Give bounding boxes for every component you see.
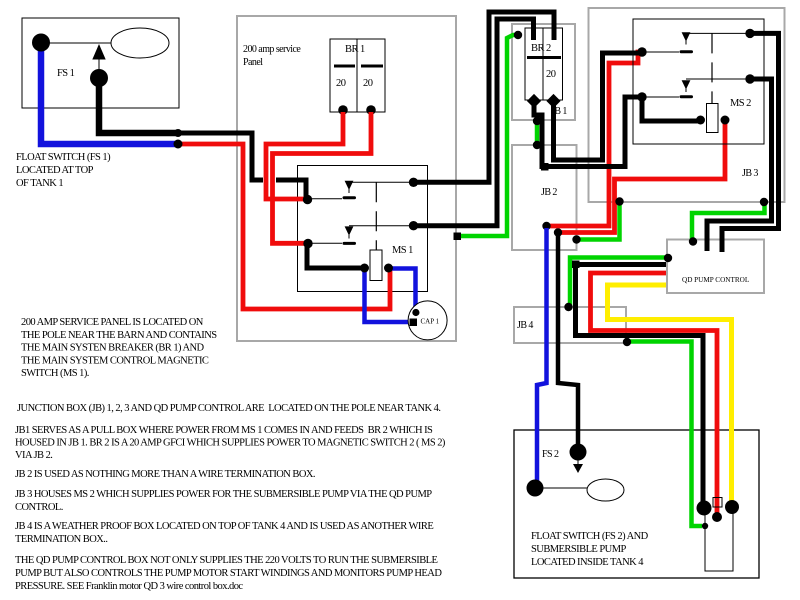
ground dot near BR2 <box>514 31 522 39</box>
wire black MS1 upper output to BR2 right stub <box>414 12 555 182</box>
svg-text:JB 3 HOUSES MS 2 WHICH SUPPLIE: JB 3 HOUSES MS 2 WHICH SUPPLIES POWER FO… <box>15 489 432 500</box>
paragraph P5 <box>15 489 432 513</box>
svg-text:200 AMP SERVICE PANEL IS LOCAT: 200 AMP SERVICE PANEL IS LOCATED ON <box>21 317 204 328</box>
svg-text:BR 2: BR 2 <box>531 43 551 54</box>
tank caption <box>531 531 649 568</box>
svg-text:HOUSED IN JB 1. BR 2 IS A 20 A: HOUSED IN JB 1. BR 2 IS A 20 AMP GFCI WH… <box>15 438 446 449</box>
svg-text:20: 20 <box>363 78 373 89</box>
svg-text:JB 2: JB 2 <box>541 187 557 198</box>
JB1 label <box>551 106 567 117</box>
wire black segment after red crossing into MS1 <box>276 180 306 197</box>
junction box JB2 (gray) <box>512 145 577 250</box>
breaker BR1 label <box>345 44 365 55</box>
svg-text:FS 1: FS 1 <box>57 68 75 79</box>
paragraph P7 <box>15 555 442 592</box>
svg-text:SWITCH (MS 1).: SWITCH (MS 1). <box>21 368 89 379</box>
submersible pump terminals <box>697 498 740 572</box>
MS2 output dots <box>745 29 754 38</box>
svg-text:THE QD PUMP CONTROL BOX NOT ON: THE QD PUMP CONTROL BOX NOT ONLY SUPPLIE… <box>15 555 438 566</box>
MS2 linkage dashed line <box>711 33 713 103</box>
ground dot on QD top edge <box>689 237 697 245</box>
wire blue coil left to CAP1 lower <box>365 269 411 322</box>
svg-text:QD PUMP CONTROL: QD PUMP CONTROL <box>682 276 749 284</box>
JB4 label <box>517 320 533 331</box>
svg-text:JB 3: JB 3 <box>742 168 758 179</box>
green jumper in JB1 <box>535 121 540 145</box>
paragraph P6 <box>15 521 433 545</box>
wire black BR2 left to MS2 lower input <box>534 97 640 167</box>
svg-text:BR 1: BR 1 <box>345 44 365 55</box>
svg-text:FLOAT SWITCH (FS 2) AND: FLOAT SWITCH (FS 2) AND <box>531 531 649 542</box>
QD control label <box>682 276 749 284</box>
QD pump control box (gray) <box>667 240 764 294</box>
wire red BR1 left to MS1 upper input <box>266 112 343 199</box>
wire black MS2 lower output to QD control <box>707 79 772 251</box>
wire green panel ground to JB1 <box>459 35 518 236</box>
svg-text:FS 2: FS 2 <box>542 449 559 460</box>
MS1 coil terminal dots <box>360 264 369 273</box>
MS2 coil terminal dots <box>696 116 705 125</box>
wire green JB3 ground to QD control <box>692 204 765 239</box>
ground dot on panel edge <box>454 233 462 241</box>
MS1 linkage dashed line <box>375 182 377 250</box>
wire green QD to JB4 <box>570 258 666 306</box>
junction dot A red-blue <box>542 222 550 230</box>
junction box JB4 (gray) <box>514 307 626 343</box>
junction box JB1 (gray) <box>512 24 575 120</box>
FS1 label <box>57 68 75 79</box>
breaker BR2 box <box>525 28 563 100</box>
FS1 caption <box>16 152 111 189</box>
junction square dot black QD wire <box>572 261 580 269</box>
junction dots FS1 wires <box>174 129 182 137</box>
svg-text:MS 1: MS 1 <box>392 245 413 256</box>
MS1 input dots <box>303 195 312 204</box>
junction dot B red-black <box>554 228 562 236</box>
ground dot JB4 corner <box>623 338 631 346</box>
svg-text:200 amp service: 200 amp service <box>243 44 301 55</box>
ground dot on JB3 bottom edge left <box>615 197 623 205</box>
svg-text:JB 4 IS A WEATHER PROOF BOX LO: JB 4 IS A WEATHER PROOF BOX LOCATED ON T… <box>15 521 433 532</box>
wire green JB3 to JB2 termination <box>579 203 620 240</box>
BR2 terminal diamond left <box>527 94 541 108</box>
panel label <box>243 44 301 68</box>
svg-text:THE MAIN SYSTEM CONTROL MAGNET: THE MAIN SYSTEM CONTROL MAGNETIC <box>21 356 209 367</box>
svg-text:20: 20 <box>336 78 346 89</box>
termination dot on JB2 right edge <box>572 235 580 243</box>
wire black FS1 switch to MS1 upper input <box>99 82 178 133</box>
ground dot on JB3 bottom edge right <box>760 198 768 206</box>
paragraph P3 <box>15 425 446 461</box>
wire green JB4 to pump ground <box>627 342 702 527</box>
svg-text:20: 20 <box>546 69 556 80</box>
svg-text:FLOAT SWITCH (FS 1): FLOAT SWITCH (FS 1) <box>16 152 111 163</box>
wire red junction to MS1 coil (via panel bottom) <box>178 144 390 309</box>
200 amp service panel box (gray) <box>237 16 456 341</box>
wire black QD to pump <box>576 265 704 506</box>
MS2 upper contact <box>642 32 750 53</box>
svg-text:PUMP BUT ALSO CONTROLS THE PUM: PUMP BUT ALSO CONTROLS THE PUMP MOTOR ST… <box>15 568 442 579</box>
paragraph P1 <box>21 317 217 379</box>
svg-text:THE MAIN SYSTEN BREAKER (BR 1): THE MAIN SYSTEN BREAKER (BR 1) AND <box>21 343 205 354</box>
wire red MS2 coil circuit to blue junction (dot A) <box>549 52 642 226</box>
wire black MS1 lower input to coil left <box>307 245 364 268</box>
wire yellow QD to pump <box>608 285 732 504</box>
wire red QD to pump <box>591 273 718 514</box>
MS1 upper contact <box>308 181 414 200</box>
BR1 value 20 left <box>336 78 346 89</box>
BR2 label <box>531 43 551 54</box>
BR1 terminal dot left <box>338 105 348 115</box>
wire red MS2 coil right to black junction (dot B) <box>560 122 725 233</box>
breaker BR1 box <box>330 39 385 112</box>
svg-text:PRESSURE. SEE Franklin motor Q: PRESSURE. SEE Franklin motor QD 3 wire c… <box>15 581 243 592</box>
wire red BR1 right to MS1 lower input <box>273 112 372 243</box>
svg-text:JUNCTION BOX (JB) 1, 2, 3 AND: JUNCTION BOX (JB) 1, 2, 3 AND QD PUMP CO… <box>17 403 440 414</box>
capacitor CAP1 <box>408 301 447 340</box>
MS2 lower contact <box>642 79 750 98</box>
FS2 label <box>542 449 559 460</box>
wire blue dot A to FS2 <box>537 228 547 485</box>
wire black MS2 lower input to coil left <box>642 99 700 121</box>
MS1 output dots <box>409 178 418 187</box>
MS2 input dots <box>637 47 646 56</box>
svg-text:OF TANK 1: OF TANK 1 <box>16 178 63 189</box>
ground dot JB4 top edge <box>564 303 572 311</box>
svg-text:CONTROL.: CONTROL. <box>15 502 63 513</box>
junction square dot JB1 lower <box>541 163 549 171</box>
float switch FS1 symbol <box>32 28 169 87</box>
svg-text:SUBMERSIBLE PUMP: SUBMERSIBLE PUMP <box>531 544 626 555</box>
svg-text:VIA JB 2.: VIA JB 2. <box>15 450 52 461</box>
float switch FS2 symbol <box>527 444 625 502</box>
tank 4 box <box>514 430 759 578</box>
svg-text:JB 2 IS USED AS NOTHING MORE T: JB 2 IS USED AS NOTHING MORE THAN A WIRE… <box>15 469 315 480</box>
MS1 coil <box>370 250 382 281</box>
wire blue FS1 to red junction <box>41 46 178 144</box>
svg-text:JB 4: JB 4 <box>517 320 533 331</box>
MS2 label <box>730 98 751 109</box>
svg-text:JB1 SERVES AS A PULL BOX WHERE: JB1 SERVES AS A PULL BOX WHERE POWER FRO… <box>15 425 433 436</box>
ground dot QD left edge <box>664 254 672 262</box>
svg-text:Panel: Panel <box>243 57 263 68</box>
wire black MS1 lower output to BR2 left stub <box>414 19 534 226</box>
JB2 label <box>541 187 557 198</box>
BR2 value 20 <box>546 69 556 80</box>
paragraph P4 <box>15 469 315 480</box>
svg-text:MS 2: MS 2 <box>730 98 751 109</box>
svg-text:CAP 1: CAP 1 <box>421 318 440 326</box>
svg-text:LOCATED INSIDE TANK 4: LOCATED INSIDE TANK 4 <box>531 557 644 568</box>
wire black BR2 right to MS2 upper input <box>554 53 641 160</box>
JB3 label <box>742 168 758 179</box>
wire black MS2 upper output to QD control <box>722 33 779 252</box>
svg-text:LOCATED AT TOP: LOCATED AT TOP <box>16 165 94 176</box>
MS1 label <box>392 245 413 256</box>
MS1 lower contact <box>308 226 414 245</box>
paragraph P2 <box>17 403 440 414</box>
magnetic switch MS2 box <box>633 19 764 144</box>
svg-text:THE POLE NEAR THE BARN AND CON: THE POLE NEAR THE BARN AND CONTAINS <box>21 330 217 341</box>
BR1 terminal dot right <box>366 105 376 115</box>
BR1 value 20 right <box>363 78 373 89</box>
junction box JB3 (gray) <box>589 8 785 202</box>
wire black dot B to FS2 <box>558 235 578 448</box>
wire blue coil right to CAP1 upper <box>390 269 416 312</box>
BR2 terminal diamond right <box>546 94 560 108</box>
MS2 coil <box>707 104 719 133</box>
svg-text:TERMINATION BOX..: TERMINATION BOX.. <box>15 534 107 545</box>
float switch FS1 box <box>22 18 179 108</box>
magnetic switch MS1 box <box>298 166 428 292</box>
